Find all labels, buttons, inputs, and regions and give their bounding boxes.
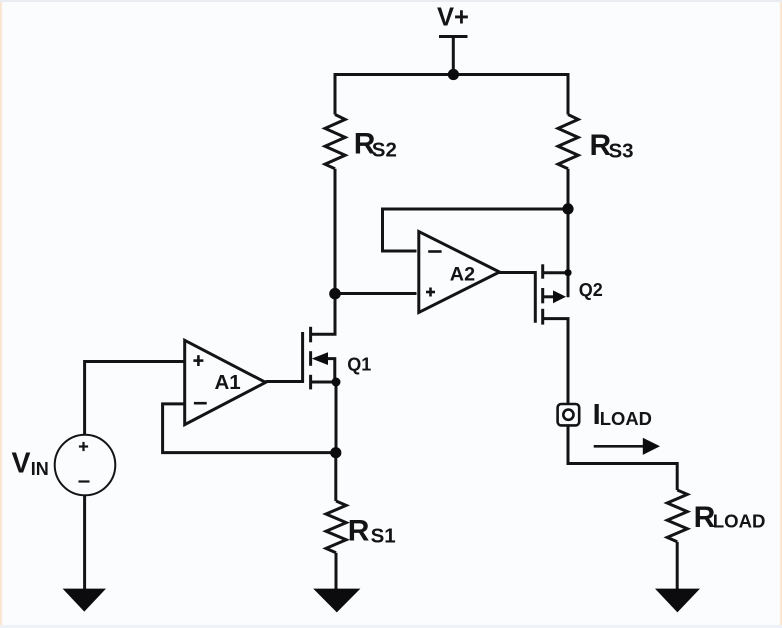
svg-text:IN: IN	[31, 459, 49, 479]
svg-text:S2: S2	[372, 139, 397, 162]
svg-text:A1: A1	[215, 371, 241, 394]
svg-text:A2: A2	[450, 264, 475, 286]
svg-text:LOAD: LOAD	[600, 408, 652, 429]
svg-text:R: R	[348, 515, 370, 548]
svg-text:V+: V+	[437, 3, 469, 31]
svg-text:Q1: Q1	[347, 355, 371, 375]
svg-text:S1: S1	[371, 525, 396, 548]
svg-text:Q2: Q2	[579, 280, 603, 300]
svg-text:S3: S3	[609, 140, 634, 163]
svg-text:LOAD: LOAD	[713, 511, 766, 532]
svg-text:V: V	[12, 447, 31, 479]
